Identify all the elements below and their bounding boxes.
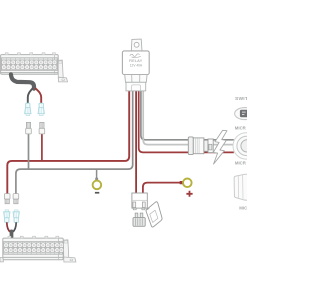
svg-text:SWIT: SWIT: [235, 96, 247, 102]
relay K1 body: [122, 51, 149, 75]
relay socket lower block: [126, 82, 146, 91]
rocker switch option (oval, clipped at edge): [235, 108, 256, 120]
wire: red +12V bus from relay pin87 down-left to lower-left male terminal: [7, 91, 129, 195]
wire: gray switch wire turning right: [141, 91, 234, 140]
ring terminal (+) battery positive: [183, 179, 192, 188]
top light bar LB1 body: [1, 55, 59, 75]
LB2 power cable stub: [10, 231, 14, 237]
fuse holder box: [132, 193, 147, 210]
crimp of positive ring terminal: [180, 181, 183, 184]
wire: red battery feed from relay socket straight down to fuse holder: [135, 91, 137, 193]
bottom light bar LB2 left foot: [0, 258, 3, 262]
label: minus sign: [95, 192, 99, 194]
LB2 red lead wire from lower-left female terminal: [7, 222, 11, 232]
angled rocker switch option (clipped): [234, 174, 247, 200]
inline connector on switch lead: [188, 137, 213, 155]
svg-text:MICR: MICR: [235, 126, 247, 131]
ring terminal (-) battery negative: [93, 181, 102, 190]
wire: red from fuse holder up-right to ring terminal (+): [143, 183, 182, 194]
wire: gray ground bus from relay socket down-left to lower-left male terminal: [16, 91, 133, 195]
lightning bolt quick-disconnect symbol: [213, 130, 227, 164]
label: plus sign: [186, 191, 192, 197]
svg-text:12V 40A: 12V 40A: [130, 63, 143, 67]
female spade terminal (blue) lower-right: [13, 210, 19, 222]
bottom light bar LB2 body: [3, 238, 64, 260]
relay K1 mounting tab: [131, 39, 142, 51]
male spade terminal (white) lower-left red side: [4, 194, 10, 204]
female spade terminal (blue) top-right B: [38, 103, 44, 115]
LB1 red lead wire to right female terminal: [35, 88, 41, 104]
wire: red drop from top light bar right male terminal to +12V bus: [41, 134, 43, 161]
svg-text:MIC: MIC: [239, 206, 247, 211]
relay socket upper block with 3 cavities: [125, 75, 147, 83]
bottom light bar LB2 LED lenses: [4, 243, 64, 253]
round push button switch option (clipped): [233, 133, 259, 159]
male spade terminal (white) top-right B: [39, 122, 45, 134]
top light bar LB1 side bracket: [58, 60, 67, 82]
top light bar LB1 LED lenses: [1, 60, 56, 70]
svg-text:MICR: MICR: [235, 160, 247, 165]
svg-text:RELAY: RELAY: [129, 59, 143, 63]
male spade terminal (white) lower-right gray side: [13, 194, 19, 204]
crimp of ground ring terminal: [95, 178, 98, 181]
bottom light bar LB2 side bracket: [64, 240, 76, 262]
male spade terminal (white) top-left A: [26, 122, 32, 134]
female spade terminal (blue) lower-left: [4, 210, 10, 222]
female spade terminal (blue) top-left A: [25, 103, 31, 115]
blade fuse below holder: [133, 213, 145, 226]
LB1 black lead wire to left female terminal: [28, 88, 33, 104]
bottom light bar LB2 mounting bolt bumps: [8, 236, 59, 238]
LB1 power cable (thick dark gray): [11, 74, 34, 88]
wire: gray drop from top light bar left male terminal to ground bus: [28, 134, 30, 170]
fuse holder cover (tilted cap): [146, 202, 162, 227]
wire: red switch feed turning right to inline connector: [139, 91, 234, 153]
relay K1 logo squiggle: [130, 54, 141, 57]
wire: light gray switch wire turning right: [143, 91, 234, 145]
wire: gray stub from ground bus down to ring terminal: [96, 169, 98, 180]
top light bar LB1 mounting bolt bumps: [5, 53, 55, 55]
LB2 black lead wire from lower-right female terminal: [12, 222, 16, 232]
